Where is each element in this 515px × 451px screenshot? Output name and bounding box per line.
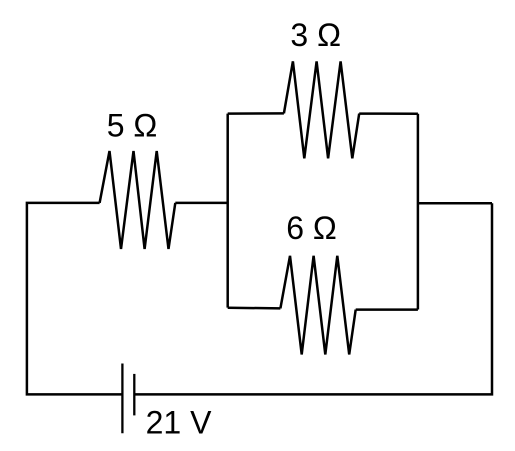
- resistor 6 ohm zigzag: [280, 256, 355, 355]
- svg-text:3 Ω: 3 Ω: [290, 17, 341, 53]
- svg-text:21 V: 21 V: [146, 405, 212, 441]
- svg-text:5 Ω: 5 Ω: [107, 108, 158, 144]
- node left vertical of parallel box: [226, 114, 229, 308]
- wire bottom branch left: [228, 306, 281, 309]
- wire bottom branch right: [356, 308, 418, 311]
- wire top branch right: [359, 112, 418, 115]
- wire from 5 ohm to parallel node: [175, 202, 227, 205]
- node right vertical of parallel box: [417, 114, 420, 310]
- wire left loop: top-left horizontal, left vertical, bottom-left to battery: [27, 203, 123, 395]
- svg-text:6 Ω: 6 Ω: [286, 210, 337, 246]
- wire right vertical and bottom to battery: [134, 203, 492, 394]
- wire middle right from box to outer loop: [418, 202, 492, 205]
- resistor 3 ohm zigzag: [284, 61, 359, 158]
- battery B1 short plate: [133, 374, 135, 416]
- resistor 5 ohm zigzag: [100, 151, 176, 249]
- wire top branch left: [228, 112, 284, 115]
- battery B1 long plate: [121, 364, 123, 434]
